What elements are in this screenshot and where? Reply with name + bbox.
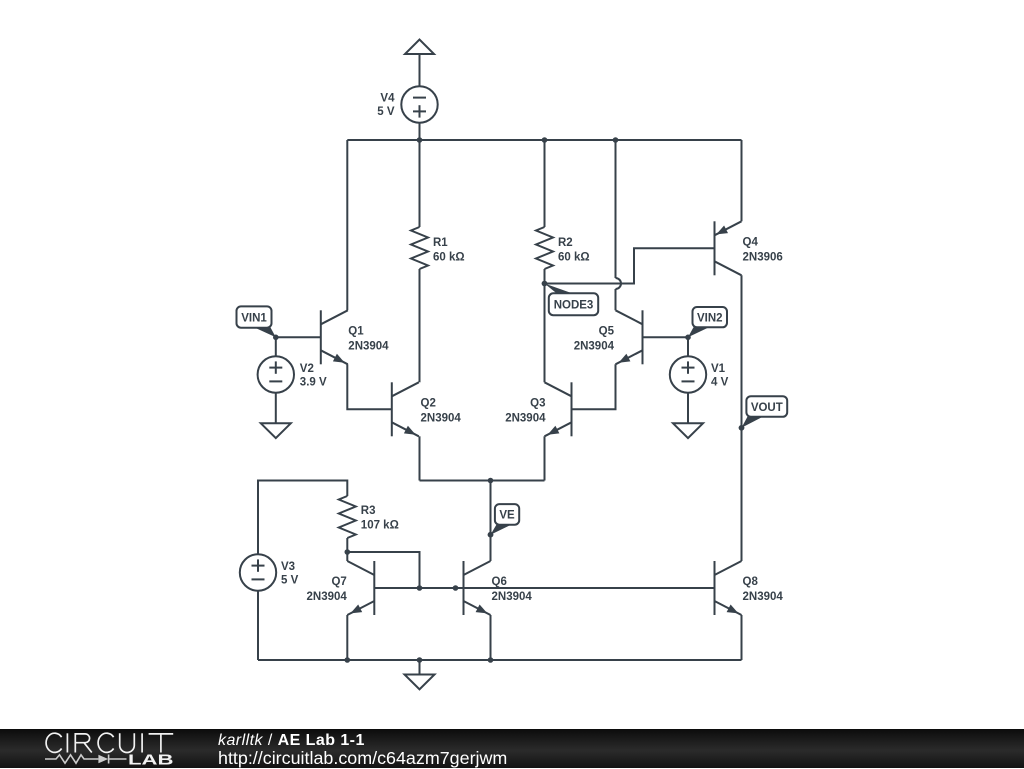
label R2 60 kOhm [558, 237, 590, 263]
label Q2 2N3904 [421, 397, 462, 424]
wire Q3-emitter-to-tail [544, 436, 546, 480]
wire rail-to-R1 [419, 140, 421, 227]
wire V2-to-ground [275, 393, 277, 424]
svg-text:R1: R1 [433, 237, 448, 249]
svg-text:Q3: Q3 [530, 397, 545, 409]
voltage source V4 [401, 86, 437, 122]
wire hop over NODE3 wire [616, 278, 622, 289]
resistor R3 [339, 496, 356, 538]
wire rail-to-R2 [544, 140, 546, 227]
wire bottom rail [258, 659, 742, 661]
wire top rail [347, 139, 741, 141]
transistor Q6 (NPN) [464, 561, 491, 615]
svg-text:2N3904: 2N3904 [743, 591, 784, 603]
wire Q7-emitter-to-bottom-rail [346, 615, 348, 660]
svg-text:5 V: 5 V [377, 106, 395, 118]
node R3/Q7-collector junction [345, 549, 351, 555]
resistor R2 [536, 227, 553, 269]
wire power-to-V4 [419, 54, 421, 86]
transistor Q3 (NPN mirrored) [545, 382, 572, 436]
svg-text:LAB: LAB [128, 752, 174, 768]
svg-text:2N3904: 2N3904 [307, 591, 348, 603]
transistor Q1 (NPN) [321, 310, 348, 364]
footer bar [0, 729, 1024, 768]
voltage source V1 [670, 356, 706, 392]
transistor Q7 (NPN mirrored) [347, 561, 374, 615]
footer title [218, 732, 365, 750]
wire Q6-emitter-to-bottom-rail [490, 615, 492, 660]
node tail/VE junction [488, 478, 494, 484]
svg-text:2N3906: 2N3906 [743, 251, 783, 263]
ground below V2 [261, 423, 291, 438]
svg-text:Q8: Q8 [743, 576, 759, 588]
wire R3-to-base-rail [347, 552, 419, 588]
wire R2-to-NODE3 [544, 269, 546, 284]
transistor Q5 (NPN mirrored) [616, 310, 643, 364]
wire rail-to-Q4-emitter [741, 140, 743, 221]
svg-text:2N3904: 2N3904 [574, 340, 615, 352]
wire VIN2-to-V1 [687, 337, 689, 356]
svg-text:5 V: 5 V [281, 574, 299, 586]
transistor Q4 (PNP) [715, 221, 742, 275]
node VOUT anchor [739, 425, 745, 431]
svg-text:VIN1: VIN1 [241, 312, 267, 324]
svg-text:Q5: Q5 [599, 325, 615, 337]
svg-text:Q4: Q4 [743, 236, 759, 248]
label Q4 2N3906 [743, 236, 783, 263]
wire Q5-base-to-VIN2 [643, 336, 689, 338]
svg-text:V3: V3 [281, 561, 295, 573]
wire rail-to-Q1-collector [346, 140, 348, 310]
svg-text:3.9 V: 3.9 V [300, 376, 327, 388]
net flag VE [488, 504, 520, 537]
label V4 5 V [377, 93, 395, 119]
wire NODE3-to-Q4-base [545, 248, 715, 283]
wire Q3-collector-to-NODE3 [544, 284, 546, 383]
wire tail-to-Q6-collector [490, 481, 492, 562]
wire Q8-emitter-to-bottom-rail [741, 615, 743, 660]
label Q6 2N3904 [492, 576, 533, 603]
node bottom-rail/Q7-emitter [345, 657, 351, 663]
label R3 107 kOhm [361, 505, 399, 532]
wire base rail Q7-Q6-Q8 [374, 587, 714, 589]
wire tail (Q2/Q3 emitters) [420, 480, 545, 482]
svg-text:V1: V1 [711, 363, 726, 375]
svg-text:NODE3: NODE3 [554, 300, 594, 312]
wire Q1-emitter-to-Q2-base [347, 364, 392, 409]
net flag VIN1 [237, 306, 279, 340]
svg-text:2N3904: 2N3904 [421, 412, 462, 424]
svg-text:2N3904: 2N3904 [505, 412, 546, 424]
svg-text:V2: V2 [300, 363, 314, 375]
label V1 4 V [711, 363, 729, 388]
svg-text:V4: V4 [380, 93, 395, 105]
svg-text:60 kΩ: 60 kΩ [433, 251, 465, 263]
node NODE3 junction [542, 281, 548, 287]
label Q7 2N3904 [307, 576, 348, 603]
svg-text:R3: R3 [361, 505, 376, 517]
net flag VIN2 [685, 307, 727, 340]
net flag NODE3 [542, 281, 599, 315]
node VE anchor [488, 532, 494, 538]
wire Q4-collector-to-Q8-collector [741, 275, 743, 561]
svg-text:Q2: Q2 [421, 397, 436, 409]
wire hop-to-Q5-collector [615, 289, 617, 310]
label R1 60 kOhm [433, 237, 465, 263]
wire V4-to-rail [419, 123, 421, 140]
ground below V1 [673, 423, 703, 438]
node top-rail/V4 [417, 137, 423, 143]
label Q3 2N3904 [505, 397, 546, 424]
wire VIN1-to-V2 [275, 337, 277, 356]
ground main [405, 675, 435, 690]
svg-text:VIN2: VIN2 [697, 312, 723, 324]
svg-text:2N3904: 2N3904 [492, 591, 533, 603]
label Q1 2N3904 [348, 325, 389, 352]
svg-text:60 kΩ: 60 kΩ [558, 251, 590, 263]
svg-text:2N3904: 2N3904 [348, 340, 389, 352]
svg-text:Q7: Q7 [331, 576, 346, 588]
label Q8 2N3904 [743, 576, 784, 603]
svg-text:VE: VE [499, 510, 515, 522]
svg-text:R2: R2 [558, 237, 573, 249]
transistor Q2 (NPN) [392, 382, 419, 436]
node top-rail/Q5-branch [613, 137, 619, 143]
node base-rail/R3 junction [417, 585, 423, 591]
net flag VOUT [739, 396, 788, 430]
wire R1-to-Q2-collector [419, 269, 421, 382]
node top-rail/R2 [542, 137, 548, 143]
wire V3-loop-top [258, 481, 347, 555]
wire V1-to-ground [687, 393, 689, 424]
label V2 3.9 V [300, 363, 327, 388]
logo resistor-diode glyph [45, 755, 127, 764]
svg-text:4 V: 4 V [711, 376, 729, 388]
node base-rail/Q6-base junction [453, 585, 459, 591]
CircuitLab logo text CIRCUIT [46, 733, 173, 752]
power symbol VCC [405, 40, 434, 55]
svg-text:107 kΩ: 107 kΩ [361, 520, 399, 532]
node bottom-rail/ground [417, 657, 423, 663]
wire rail-to-hop [615, 140, 617, 278]
label Q5 2N3904 [574, 325, 615, 352]
wire V3-to-bottom-rail [257, 591, 259, 660]
wire Q5-emitter-to-Q3-base [572, 364, 616, 409]
label V3 5 V [281, 561, 299, 586]
wire bottom-rail-to-ground [419, 660, 421, 675]
voltage source V3 [240, 554, 276, 590]
wire VIN1-to-Q1-base [276, 336, 321, 338]
svg-text:Q1: Q1 [348, 325, 364, 337]
svg-text:VOUT: VOUT [751, 402, 783, 414]
transistor Q8 (NPN) [715, 561, 742, 615]
wire R3-to-Q7-collector [346, 538, 348, 561]
voltage source V2 [258, 356, 294, 392]
footer url [218, 748, 507, 769]
node bottom-rail/Q6-emitter [488, 657, 494, 663]
wire Q2-emitter-to-tail [419, 436, 421, 480]
svg-text:Q6: Q6 [492, 576, 507, 588]
resistor R1 [411, 227, 428, 269]
